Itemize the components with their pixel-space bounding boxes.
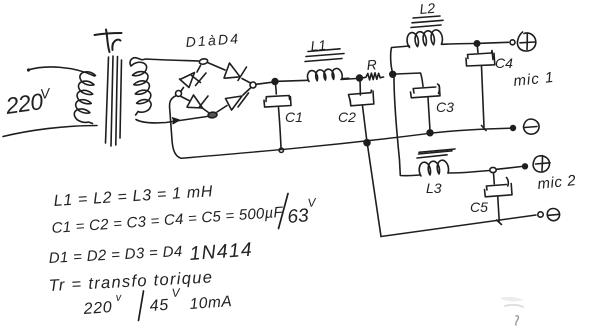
svg-text:L2: L2 xyxy=(419,0,436,17)
svg-text:C5: C5 xyxy=(470,199,488,215)
wire bridge minus (left vertex) down to rail xyxy=(170,96,181,159)
capacitor C4 xyxy=(466,46,495,131)
mic2 minus symbol xyxy=(547,209,559,221)
wire secondary top to bridge xyxy=(130,58,199,66)
svg-text:Tr = transfo torique: Tr = transfo torique xyxy=(48,268,213,295)
svg-text:C1 = C2 = C3 = C4 = C5 = 500µF: C1 = C2 = C3 = C4 = C5 = 500µF xyxy=(51,204,284,237)
svg-text:45: 45 xyxy=(149,297,169,315)
svg-text:C2: C2 xyxy=(338,109,356,125)
capacitor C1 xyxy=(264,85,291,153)
mic1 plus terminal xyxy=(510,40,515,45)
wire bridge plus to node A xyxy=(256,82,272,84)
node A junction xyxy=(272,79,278,85)
mic2 plus symbol xyxy=(533,156,550,173)
transformer secondary winding xyxy=(131,62,151,115)
mic1 plus symbol xyxy=(517,32,535,51)
L3 feed wire from node C down xyxy=(394,78,420,176)
wire secondary bottom to bridge xyxy=(136,117,207,123)
220V source lead bottom xyxy=(3,126,97,137)
resistor R xyxy=(363,73,384,80)
220V source lead top xyxy=(27,67,95,76)
diode D2 (top to right arm) xyxy=(208,63,251,84)
Tr label xyxy=(95,30,122,53)
svg-text:220: 220 xyxy=(3,88,45,119)
svg-text:63: 63 xyxy=(287,205,310,228)
svg-text:1N414: 1N414 xyxy=(189,239,254,265)
mic1 minus symbol xyxy=(524,119,539,134)
svg-text:C4: C4 xyxy=(495,55,513,71)
svg-text:L1: L1 xyxy=(310,37,327,54)
diode D1 (left to top arm) xyxy=(180,66,207,92)
svg-text:C3: C3 xyxy=(436,99,454,115)
node C2-rail junction xyxy=(364,140,370,146)
transformer Tr primary winding xyxy=(74,72,95,124)
svg-text:V: V xyxy=(39,85,52,102)
mic2 bottom rail xyxy=(381,215,536,237)
svg-text:mic 2: mic 2 xyxy=(537,172,577,193)
svg-text:10mA: 10mA xyxy=(189,293,233,313)
capacitor C2 xyxy=(349,80,374,141)
inductor L3 xyxy=(417,149,490,176)
svg-text:R: R xyxy=(366,56,377,73)
wire to mic2 plus terminal xyxy=(497,167,522,170)
tall slash in ratings note xyxy=(139,291,144,321)
node B junction xyxy=(357,75,363,81)
bridge node left xyxy=(176,91,182,97)
diode D3 (left to bottom arm) xyxy=(181,95,209,113)
bridge node bottom xyxy=(208,112,218,119)
wire to mic1 plus terminal xyxy=(480,42,509,43)
mic1 minus terminal xyxy=(511,126,516,131)
bridge node right xyxy=(250,82,256,88)
svg-text:220: 220 xyxy=(82,299,113,318)
svg-text:C1: C1 xyxy=(285,109,303,125)
220V label xyxy=(3,85,52,119)
svg-text:mic 1: mic 1 xyxy=(513,69,555,90)
svg-text:L3: L3 xyxy=(426,180,442,196)
C3 top wire from node C xyxy=(396,73,440,131)
diode D4 (bottom to right arm) xyxy=(217,88,251,112)
node D junction (L2 right / C4) xyxy=(474,41,479,46)
inductor L1 xyxy=(278,49,357,82)
handwritten notes xyxy=(48,183,317,318)
inductor L2 xyxy=(391,16,474,73)
node C junction xyxy=(390,71,396,77)
svg-text:L1 = L2 = L3 = 1 mH: L1 = L2 = L3 = 1 mH xyxy=(53,183,213,210)
svg-text:v: v xyxy=(115,292,123,304)
tall slash in C values note xyxy=(279,194,289,229)
mic2 branch from C2 junction down xyxy=(368,145,382,237)
faint paper smudge xyxy=(500,297,524,301)
svg-text:V: V xyxy=(307,195,317,210)
mic2 minus terminal xyxy=(538,212,543,217)
transformer core xyxy=(106,56,122,146)
bridge node top xyxy=(199,58,208,65)
negative rail (long, to mic1 minus) xyxy=(181,128,511,158)
capacitor C5 xyxy=(485,173,513,225)
svg-text:D1 = D2 = D3 = D4: D1 = D2 = D3 = D4 xyxy=(48,243,183,267)
mic2 plus junction node xyxy=(490,167,496,172)
svg-text:D1àD4: D1àD4 xyxy=(185,30,241,50)
node C3-rail junction xyxy=(427,130,433,136)
